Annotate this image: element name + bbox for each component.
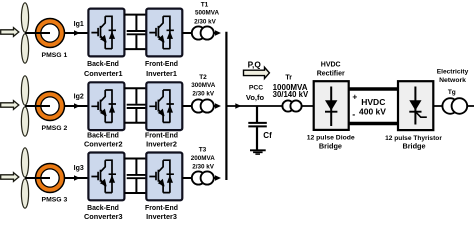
svg-text:Converter3: Converter3 [84, 212, 123, 220]
svg-text:T3: T3 [199, 146, 207, 153]
svg-text:T1: T1 [201, 1, 209, 8]
svg-text:Inverter2: Inverter2 [146, 140, 177, 149]
svg-text:Electricity: Electricity [437, 68, 469, 75]
svg-text:+: + [352, 92, 357, 102]
svg-text:Vo,fo: Vo,fo [246, 93, 265, 102]
svg-text:Back-End: Back-End [87, 205, 119, 212]
svg-text:Rectifier: Rectifier [317, 70, 345, 77]
svg-text:PCC: PCC [249, 85, 263, 92]
svg-text:Tg: Tg [448, 89, 456, 96]
svg-text:2/30 kV: 2/30 kV [192, 164, 215, 171]
svg-text:Converter2: Converter2 [84, 140, 123, 149]
svg-text:200MVA: 200MVA [191, 155, 215, 162]
svg-text:300MVA: 300MVA [191, 82, 215, 89]
svg-text:Inverter1: Inverter1 [146, 69, 177, 78]
svg-text:Ig3: Ig3 [74, 165, 84, 172]
svg-text:Bridge: Bridge [319, 141, 342, 150]
svg-text:P,Q: P,Q [248, 60, 262, 70]
svg-text:Cf: Cf [263, 131, 272, 140]
svg-text:-: - [352, 109, 355, 119]
svg-text:HVDC: HVDC [321, 62, 341, 69]
svg-text:2/30 kV: 2/30 kV [192, 90, 215, 97]
svg-text:Ig2: Ig2 [74, 94, 84, 101]
svg-text:Network: Network [439, 77, 466, 84]
svg-text:Back-End: Back-End [87, 61, 119, 68]
svg-text:Bridge: Bridge [402, 142, 425, 151]
svg-text:PMSG 2: PMSG 2 [42, 125, 68, 132]
svg-text:30/140 kV: 30/140 kV [273, 90, 309, 99]
svg-text:Front-End: Front-End [145, 205, 178, 212]
svg-text:Converter1: Converter1 [84, 69, 123, 78]
svg-text:PMSG 1: PMSG 1 [42, 52, 68, 59]
svg-text:Ig1: Ig1 [74, 21, 84, 28]
svg-text:400 kV: 400 kV [359, 106, 386, 116]
svg-text:PMSG 3: PMSG 3 [42, 197, 68, 204]
svg-text:Tr: Tr [285, 75, 292, 82]
svg-text:2/30 kV: 2/30 kV [194, 19, 217, 26]
svg-text:T2: T2 [199, 74, 207, 81]
svg-text:Front-End: Front-End [145, 61, 178, 68]
svg-text:500MVA: 500MVA [195, 9, 219, 16]
svg-text:Inverter3: Inverter3 [146, 212, 177, 220]
